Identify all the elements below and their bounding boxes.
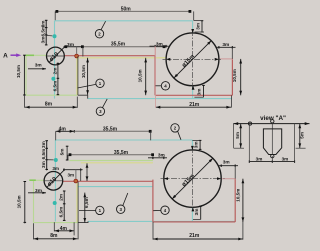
bottom drawing: red basin left edge — [152, 180, 154, 222]
bottom chain mid tick to cyan node — [47, 159, 54, 161]
dimension 3m above big circle connector — [194, 20, 202, 22]
svg-text:3m: 3m — [67, 42, 74, 48]
bottom drawing: red pipe from small circle to basin — [63, 180, 153, 182]
balloon callout 3 — [96, 107, 104, 115]
bottom drawing: arrow at big circle right quadrant — [217, 177, 221, 180]
left dimension chain 3m/6,5m/3m vertical line — [45, 20, 47, 45]
svg-text:35,5m: 35,5m — [111, 41, 126, 47]
view "A" post centerline — [271, 123, 273, 154]
balloon callout 2 (bottom) — [171, 124, 179, 132]
top drawing: arrow at big circle right quadrant — [215, 58, 219, 61]
bottom drawing: pool outline right edge lower segment — [191, 207, 193, 221]
bottom drawing: red basin right edge — [234, 179, 236, 222]
bottom drawing: yellow pipe horizontal — [81, 162, 153, 164]
svg-text:35,5m: 35,5m — [103, 126, 118, 132]
svg-text:6,5m: 6,5m — [41, 26, 46, 37]
top drawing: pool outline right edge lower segment — [192, 86, 194, 99]
dimension 8m line (bottom) — [34, 238, 78, 240]
21m left extension (pink, full height) — [155, 47, 157, 108]
dimension 4m line (bottom lower) — [54, 230, 74, 232]
svg-text:5m: 5m — [300, 132, 305, 139]
bottom drawing: green pipe horizontal — [69, 160, 153, 162]
svg-text:5m: 5m — [235, 132, 240, 139]
bottom drawing: red basin bottom edge — [153, 221, 235, 223]
bottom drawing: big circle horizontal centerline — [161, 178, 225, 180]
4m extensions (bottom lower) — [53, 222, 55, 231]
bottom drawing: arrow at big circle left quadrant — [164, 177, 168, 180]
svg-text:50m: 50m — [121, 7, 132, 13]
bottom drawing: big circle (island) ø15m — [164, 150, 221, 207]
view "A" small circle top of post — [271, 120, 274, 123]
4m left extension — [55, 131, 57, 140]
svg-text:5m: 5m — [59, 149, 64, 156]
dimension 3m line right of small circle top (bottom) — [63, 169, 83, 171]
svg-text:2m: 2m — [52, 68, 57, 75]
top drawing: small circle diagonal leader — [49, 46, 66, 63]
svg-text:3m: 3m — [256, 157, 263, 162]
svg-text:10,5m: 10,5m — [16, 195, 21, 208]
bottom drawing: small circle (well) ø10 — [44, 172, 63, 191]
dimension 3m right of big circle line — [216, 46, 236, 48]
dimension 10,5m (basin left) line — [145, 58, 147, 95]
svg-text:3m: 3m — [41, 141, 46, 148]
dimension 10,5m left line (bottom) — [24, 181, 26, 222]
view "A" post outline — [263, 129, 281, 155]
top drawing: yellow pipe horizontal — [77, 57, 166, 59]
view "A" bottom dimension line 3m+3m — [249, 161, 294, 163]
top drawing: small circle horizontal centerline — [47, 55, 64, 57]
top drawing: black edge beside yellow vertical — [77, 56, 79, 95]
view "A" dimension 5m left line — [240, 124, 242, 148]
svg-text:10,5m: 10,5m — [16, 65, 21, 78]
bottom drawing: cyan node lower — [53, 201, 57, 205]
svg-text:3m: 3m — [41, 37, 46, 44]
svg-text:view "A": view "A" — [260, 115, 286, 122]
top drawing: red connection node — [74, 54, 79, 59]
balloon 3 leader (bottom) — [123, 193, 128, 206]
extension line from 3m dim down to red node — [76, 47, 78, 54]
svg-text:3m: 3m — [158, 153, 165, 159]
top drawing: diameter arrowhead upper-right — [207, 41, 211, 45]
top drawing: red pipe from small circle to basin — [64, 55, 155, 57]
view "A" right bottom tick — [296, 147, 306, 149]
top drawing: big circle (island) ø15m — [166, 33, 219, 86]
bottom drawing: cyan pipe under red pipe — [78, 186, 153, 188]
balloon 4 leader (bottom) — [153, 209, 161, 211]
top drawing: red basin right edge — [231, 59, 233, 95]
top drawing: green tank left edge — [25, 55, 27, 95]
dimension 50m right extension — [193, 11, 195, 20]
dimension 3m arrow line near tank top — [28, 68, 46, 70]
top drawing: arrow at big circle left quadrant — [166, 58, 170, 61]
dimension 35,5m line (bottom top) — [74, 130, 150, 132]
svg-text:10,5m: 10,5m — [81, 65, 86, 78]
dimension 3m above big circle connector (bottom) — [192, 139, 200, 141]
bottom drawing: diameter arrowhead lower-left — [172, 195, 176, 199]
dimension 3m left of big circle line (bottom) — [148, 157, 167, 159]
view "A" extension left vertical — [248, 124, 250, 163]
balloon 2 leader — [101, 21, 106, 30]
svg-text:3m: 3m — [195, 23, 200, 30]
top drawing: arrow at big circle top — [191, 29, 194, 33]
bottom drawing: red centerline stub right of big circle — [221, 178, 236, 180]
21m right extension — [231, 95, 233, 107]
21m left extension (bottom) — [152, 222, 154, 240]
top drawing: green tank top edge — [26, 54, 47, 56]
balloon 4 leader — [155, 85, 161, 87]
bottom drawing: green tank top edge — [34, 179, 45, 181]
svg-text:3m: 3m — [35, 62, 42, 68]
svg-text:6,5m: 6,5m — [41, 149, 46, 160]
svg-text:A: A — [3, 52, 8, 59]
top drawing: red basin bottom edge — [155, 94, 232, 96]
bottom drawing: arrow at big circle top — [191, 146, 194, 150]
svg-text:21m: 21m — [189, 102, 200, 108]
top drawing: red basin left edge — [154, 56, 156, 96]
bottom drawing: vertical centerline through small circle (cyan) — [54, 140, 56, 221]
dimension 3m above big circle line (bottom) — [199, 140, 201, 149]
inner chain 2m/6,5m vertical line — [57, 63, 59, 96]
balloon callout 1 (bottom) — [96, 206, 104, 214]
top drawing: big circle horizontal centerline — [163, 58, 223, 60]
balloon callout 1 — [96, 79, 104, 87]
view "A" extension right vertical — [294, 124, 296, 163]
svg-text:10,5m: 10,5m — [232, 69, 237, 82]
svg-text:3m: 3m — [67, 172, 74, 177]
bottom drawing: red connection node — [74, 179, 79, 184]
dimension 3m arrow line near tank top (bottom) — [28, 192, 46, 194]
balloon 3 leader — [103, 99, 108, 108]
view "A" extension center vertical — [271, 156, 273, 162]
top drawing: small circle (well) ø10 — [47, 47, 65, 65]
top drawing: red centerline stub right of big circle — [219, 58, 233, 60]
dimension 3m line left of 35,5m — [64, 46, 83, 48]
top drawing: arrow at big circle bottom — [192, 86, 195, 90]
inner chain 3m/6,5m vertical line (bottom) — [63, 191, 65, 221]
svg-text:10,5m: 10,5m — [138, 69, 143, 82]
svg-text:8m: 8m — [45, 102, 53, 108]
dimension 6,5m vertical right of tank (bottom) — [84, 193, 86, 223]
bottom drawing: big circle vertical centerline — [192, 147, 194, 210]
bottom drawing: small circle diagonal leader — [47, 170, 64, 187]
dimension 10,5m (tank right) line — [87, 58, 89, 95]
bottom drawing: cyan node upper — [54, 158, 58, 162]
top drawing: cyan node upper — [53, 34, 57, 38]
dimension 3m below big circle bottom tick — [194, 96, 203, 98]
35,5m right extension down to pool edge — [150, 131, 152, 140]
dimension 3m below big circle bottom tick (bottom) — [193, 218, 201, 220]
top drawing: black step in bottom edge — [78, 95, 88, 98]
dimension 21m line (bottom) — [153, 238, 243, 240]
dimension 3m below big circle line — [203, 85, 205, 97]
dimension 21m line — [156, 106, 231, 108]
dimension 3m left of big circle line — [150, 45, 169, 47]
dimension 10,5m left line — [23, 55, 25, 95]
extension line from 3m dim to red pipe — [82, 47, 84, 57]
tank right extension to 8m dim (bottom) — [77, 223, 79, 240]
svg-text:3m: 3m — [197, 89, 202, 96]
view "A" left extension — [232, 124, 234, 149]
dimension 35,5m line (top drawing) — [83, 46, 165, 48]
svg-text:3m: 3m — [41, 161, 46, 168]
bottom drawing: big circle diameter diagonal line — [172, 158, 213, 199]
svg-text:3m: 3m — [223, 160, 230, 166]
dimension 10,5m (right) line — [240, 59, 242, 95]
dimension 50m line — [56, 10, 190, 12]
balloon callout 3 (bottom) — [117, 205, 125, 213]
svg-text:3m: 3m — [282, 157, 289, 162]
dimension 5m vertical (pool edge to green pipe) — [66, 146, 68, 160]
left extension down to 8m dim (bottom) — [24, 222, 26, 225]
view "A" left bottom tick — [234, 147, 244, 149]
view "A" top line with outward arrows — [233, 123, 309, 125]
extension from 3m dim down to basin right edge (bottom) — [234, 166, 236, 179]
extension from 3m dim down to basin right edge — [231, 47, 233, 59]
chain mid tick to cyan node — [46, 34, 52, 37]
balloon callout 4 — [161, 82, 169, 90]
bottom drawing: green tank left edge — [33, 180, 35, 222]
dimension 3m above big circle bottom tick — [195, 31, 205, 33]
top drawing: yellow pipe vertical — [76, 56, 78, 95]
dimension 3m above big circle line — [201, 21, 203, 33]
bottom drawing: pool outline right edge upper segment — [191, 140, 193, 150]
top drawing: big circle vertical centerline — [192, 30, 194, 89]
bottom drawing: bright green stub at tank top-left — [29, 179, 36, 181]
balloon 2 leader (bottom) — [178, 131, 181, 140]
bottom drawing: pool outline (cyan) top edge — [55, 139, 192, 141]
svg-text:4m: 4m — [59, 126, 67, 132]
svg-text:3m: 3m — [35, 188, 42, 194]
bottom drawing: pool outline bottom edge — [88, 220, 235, 222]
dimension 10,5m right line (bottom) — [242, 179, 244, 222]
svg-text:6,5m: 6,5m — [59, 207, 64, 218]
bottom drawing: yellow tank right vertical — [76, 182, 78, 223]
view "A" small circle on top line — [248, 122, 251, 125]
top drawing: cyan node lower — [51, 77, 55, 81]
bottom left dimension chain 3m/6,5m/3m vertical line — [46, 141, 48, 171]
top drawing: diameter arrowhead lower-left — [174, 74, 178, 78]
dimension 8m line — [25, 106, 77, 108]
short dimension arrows green pipe to red pipe (bottom) — [86, 163, 88, 181]
svg-text:6,5m: 6,5m — [52, 81, 57, 92]
svg-text:21m: 21m — [189, 233, 200, 239]
svg-text:3m: 3m — [194, 209, 199, 216]
top drawing: pool outline right edge upper segment — [192, 21, 194, 33]
dimension 3m below big circle line (bottom) — [200, 206, 202, 220]
pink extension from 3m dim down (basin left edge ext) — [154, 46, 156, 56]
bottom drawing: arrow at big circle bottom — [192, 207, 195, 211]
8m left extension (bottom) — [33, 223, 35, 239]
svg-text:3m: 3m — [222, 42, 229, 48]
svg-text:3m: 3m — [156, 41, 163, 47]
top drawing: green tank bottom edge — [26, 94, 77, 96]
view direction arrow (magenta) — [11, 54, 18, 56]
bottom drawing: black step in bottom edge — [78, 221, 88, 222]
view "A" small circle bottom of post — [271, 154, 274, 157]
21m right extension (bottom) — [242, 222, 244, 240]
35,5m left extension to green pipe — [67, 155, 69, 161]
top drawing: pool outline (cyan) top edge — [55, 20, 193, 22]
bottom drawing: small circle horizontal centerline — [44, 180, 62, 182]
svg-text:6,5m: 6,5m — [84, 197, 89, 208]
view "A" dimension 5m right line — [299, 124, 301, 148]
bottom drawing: green tank bottom edge — [34, 222, 79, 224]
dimension 35,5m line (green pipe) — [69, 154, 153, 156]
8m right extension — [76, 97, 78, 108]
balloon callout 4 (bottom) — [161, 206, 169, 214]
dimension 50m left extension — [54, 11, 56, 20]
left extension down to 8m dim — [23, 95, 25, 108]
top drawing: pool outline bottom edge — [88, 98, 232, 100]
svg-text:10,5m: 10,5m — [235, 189, 240, 202]
svg-text:3m: 3m — [194, 142, 199, 149]
bottom drawing: diameter arrowhead upper-right — [209, 158, 213, 162]
svg-text:3m: 3m — [52, 166, 59, 171]
svg-text:35,5m: 35,5m — [114, 150, 129, 156]
top drawing: big circle diameter diagonal line — [174, 41, 211, 78]
dimension 4m line (bottom top) — [56, 130, 75, 132]
bottom drawing: black edge beside yellow vertical — [77, 182, 79, 223]
dimension 3m right of big circle line (bottom) — [218, 165, 238, 167]
svg-text:4m: 4m — [60, 226, 68, 232]
top drawing: bright green stub at tank top-left — [26, 54, 35, 56]
balloon callout 2 — [95, 30, 103, 38]
extension from 3m dim down to red pipe (bottom) — [80, 170, 82, 181]
balloon 1 leader (bottom) — [79, 209, 96, 211]
balloon 1 leader — [77, 84, 95, 88]
svg-text:2m: 2m — [59, 194, 64, 201]
svg-text:8m: 8m — [50, 233, 58, 239]
top drawing: vertical centerline through small circle (cyan) — [54, 21, 56, 99]
extension line from 3m dim down to red node (bottom) — [75, 170, 77, 179]
